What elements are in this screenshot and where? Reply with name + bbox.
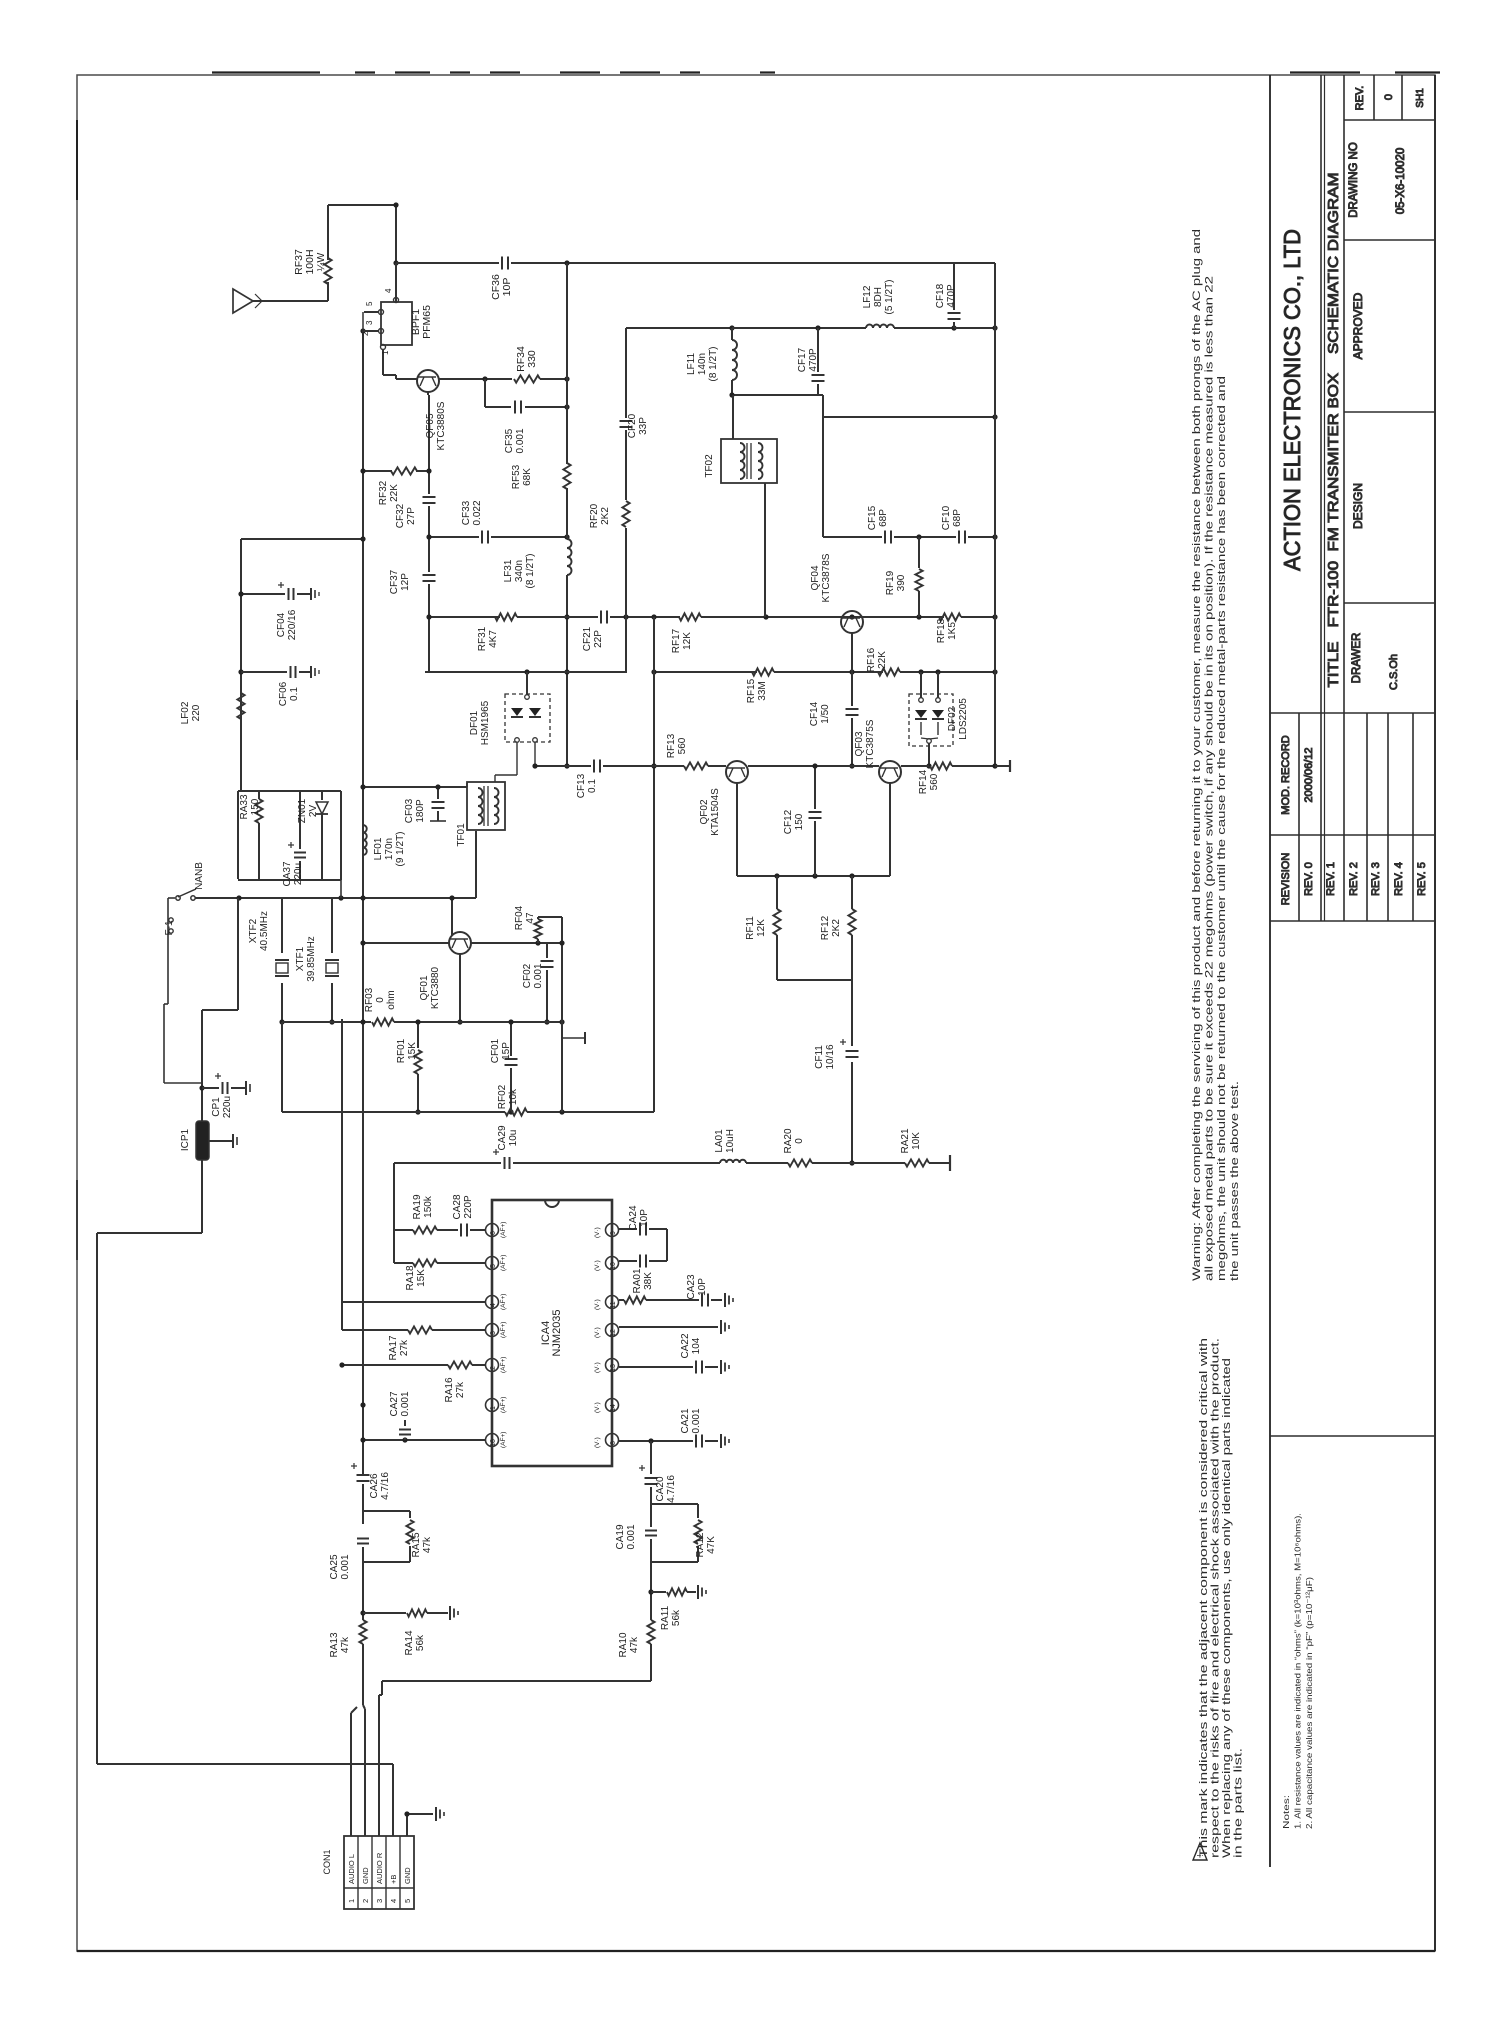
svg-text:CA26: CA26 [369,1473,380,1498]
junction [651,763,656,768]
wire [566,488,568,538]
wire [1269,75,1271,1867]
svg-text:all exposed metal parts to be: all exposed metal parts to be sure it ex… [1204,276,1216,1281]
junction [360,468,365,473]
resistor RA20 0 [788,1159,812,1166]
wire [394,1262,413,1264]
wire [327,282,329,301]
wire [439,378,512,380]
transformer TF01 [467,782,505,830]
wire [351,1707,357,1713]
junction [648,1438,653,1443]
svg-text:6: 6 [490,1231,497,1235]
junction [435,784,440,789]
wire [731,380,733,395]
wire [355,71,375,73]
resistor RA17 27k [408,1326,432,1333]
ground [721,1360,729,1374]
wire [168,930,169,932]
pin [394,298,399,303]
svg-text:CA21: CA21 [680,1408,691,1433]
junction [559,1019,564,1024]
capacitor CA24 10P [640,1223,646,1236]
capacitor CF10 68P [959,531,965,544]
svg-text:CA27: CA27 [389,1391,400,1416]
wire [851,980,853,1046]
svg-text:CF03: CF03 [404,798,415,823]
svg-text:CF04: CF04 [276,612,287,637]
junction [651,669,656,674]
svg-text:LDS2205: LDS2205 [958,698,969,740]
junction [532,763,537,768]
svg-text:560: 560 [677,737,688,754]
svg-text:QF05: QF05 [425,413,436,438]
ground [450,1606,458,1620]
svg-text:(V·): (V·) [594,1227,601,1238]
svg-text:8DH: 8DH [873,287,884,307]
wire [262,300,328,302]
svg-text:CF11: CF11 [814,1045,825,1069]
svg-text:5: 5 [403,1899,412,1903]
svg-text:ICP1: ICP1 [180,1128,191,1151]
label QF02 [699,788,721,836]
pin 8 [606,1434,619,1447]
wire [428,506,430,572]
wire [953,263,955,310]
junction [774,873,779,878]
svg-text:CF14: CF14 [809,701,820,726]
filter BPF1 PFM65 [381,302,412,345]
wire [328,204,396,206]
wire [395,71,430,73]
svg-text:REV. 1: REV. 1 [1325,862,1337,896]
junction [918,669,923,674]
svg-text:NJM2035: NJM2035 [551,1309,563,1356]
wire [921,738,929,739]
wire [817,328,819,372]
svg-text:respect to the risks of fire a: respect to the risks of fire and electri… [1210,1338,1222,1858]
svg-text:12K: 12K [682,632,693,650]
wire [511,262,995,264]
svg-text:(AF+): (AF+) [500,1294,507,1310]
label CF02 [522,963,544,988]
junction [564,669,569,674]
wire [680,71,700,73]
IC notch [545,1200,559,1207]
svg-text:CF20: CF20 [627,413,638,438]
svg-text:This mark indicates that the a: This mark indicates that the adjacent co… [1198,1338,1210,1858]
wire [484,379,486,407]
wire [620,71,660,73]
diode pair DF01 HSM1965 outline [505,694,550,742]
wire [164,1082,202,1084]
wire [281,1022,283,1112]
svg-text:2K2: 2K2 [831,919,842,937]
junction [524,669,529,674]
resistor RF37 100H [324,258,331,284]
svg-text:CA19: CA19 [615,1524,626,1549]
label RF16 [866,647,888,672]
resistor RF16 22K [878,668,900,675]
svg-text:150: 150 [250,798,261,815]
ground [721,1320,729,1334]
label QF04 [810,553,832,602]
svg-text:KTC3880S: KTC3880S [436,401,447,450]
resistor RA18 15K [413,1259,437,1266]
wire [937,722,939,735]
junction [508,1109,513,1114]
label CA37 [282,861,304,886]
label RA19 [412,1194,434,1219]
capacitor CA23 10P [702,1294,708,1307]
pin 9 [606,1224,619,1237]
wire [245,1081,247,1095]
svg-text:2K2: 2K2 [600,507,611,525]
svg-text:CF17: CF17 [797,347,808,372]
label NANB [194,862,205,890]
wire [395,205,397,263]
svg-text:KTC3880: KTC3880 [430,966,441,1009]
wire [705,1366,718,1368]
wire [732,394,823,396]
pin [176,896,180,900]
label CF11 [814,1044,836,1069]
capacitor CF01 15P [505,1059,518,1065]
wire [487,786,489,826]
label RA33 [239,794,261,819]
wire [314,668,316,676]
wire [340,791,342,880]
junction [360,536,365,541]
capacitor CA25 0.001 [357,1539,369,1544]
wire [894,327,954,329]
svg-text:CF18: CF18 [935,283,946,308]
wire [495,774,517,776]
svg-text:(AF+): (AF+) [500,1397,507,1413]
wire [357,1836,359,1909]
wire [954,327,995,329]
svg-text:0.022: 0.022 [472,500,483,525]
resistor RF34 330 [514,375,540,382]
wire [255,301,262,308]
wire [258,791,260,799]
wire [362,1562,364,1620]
wire [901,765,929,767]
wire [281,898,283,953]
capacitor CF13 0.1 [594,760,600,773]
wire [619,1326,718,1328]
transistor QF03 KTC3875S [879,761,901,783]
svg-text:(V·): (V·) [594,1299,601,1310]
pin [936,698,941,703]
junction [564,404,569,409]
svg-text:(AF+): (AF+) [500,1222,507,1238]
resistor RF31 4K7 [495,613,517,620]
svg-text:LA01: LA01 [714,1129,725,1153]
svg-text:1: 1 [490,1406,497,1410]
wire [392,1764,394,1836]
svg-text:RA13: RA13 [329,1632,340,1657]
svg-text:(5 1/2T): (5 1/2T) [884,279,895,314]
label RA17 [388,1335,410,1360]
junction [360,1437,365,1442]
svg-text:(V·): (V·) [594,1327,601,1338]
capacitor CA19 0.001 [645,1531,657,1536]
svg-text:XTF1: XTF1 [295,946,306,971]
label CF01 [490,1038,512,1063]
capacitor CF06 0.1 [291,666,296,678]
resistor RA16 27k [448,1361,472,1368]
wire [697,1504,699,1518]
label RF13 [666,733,688,758]
label RF14 [918,769,940,794]
wire [466,783,468,787]
wire [961,616,995,618]
svg-text:RA21: RA21 [900,1128,911,1153]
svg-text:GND: GND [403,1867,412,1884]
wire [812,1162,905,1164]
label CF36 [490,274,513,300]
junction [236,895,241,900]
capacitor CF14 1/50 [846,709,859,715]
junction [815,325,820,330]
label CA24 [628,1205,650,1230]
svg-text:CA24: CA24 [628,1205,639,1230]
label XTF2 [248,911,270,951]
svg-text:RA11: RA11 [660,1605,671,1630]
junction [415,1109,420,1114]
svg-text:4: 4 [389,1899,398,1903]
wire [395,263,397,302]
wire [1401,75,1403,120]
capacitor CF03 180P [432,802,445,808]
transformer TF02 winding [740,443,745,479]
svg-text:ohm: ohm [386,990,397,1009]
svg-text:LF31: LF31 [503,559,514,582]
wire [407,1813,433,1815]
svg-text:REV. 2: REV. 2 [1348,862,1360,896]
svg-text:2: 2 [361,331,370,336]
svg-text:RF16: RF16 [866,647,877,672]
junction [992,325,997,330]
svg-text:SH1: SH1 [1415,88,1426,108]
wire [393,1163,395,1230]
capacitor CA26 4.7/16 [357,1475,370,1481]
wire [178,889,196,897]
wire [814,766,816,809]
wire [430,820,446,822]
junction [648,1589,653,1594]
svg-text:RA01: RA01 [632,1268,643,1293]
junction [935,669,940,674]
svg-text:REVISION: REVISION [1280,853,1292,906]
svg-text:140n: 140n [697,353,708,375]
svg-text:220P: 220P [463,1195,474,1219]
polarity mark + [639,1465,645,1471]
wire [363,786,467,788]
junction [360,895,365,900]
wire [920,672,922,698]
svg-text:0: 0 [794,1138,805,1144]
junction [564,534,569,539]
junction [238,669,243,674]
wire [513,1162,720,1164]
svg-text:47: 47 [525,912,536,924]
wire [994,263,996,766]
junction [849,873,854,878]
svg-text:0.001: 0.001 [340,1554,351,1579]
wire [383,374,396,376]
wire [77,1950,1435,1952]
label RF04 [514,905,536,930]
resistor RF18 1K5 [939,613,961,620]
svg-text:GND: GND [361,1867,370,1884]
wire [538,916,562,918]
wire [362,1547,364,1562]
wire [362,312,364,331]
resistor RF15 33M [752,668,774,675]
resistor RF03 0ohm [372,1018,394,1025]
junction [849,763,854,768]
wire [900,671,995,673]
label CF10 [941,505,963,530]
svg-text:15K: 15K [407,1042,418,1060]
wire [750,443,752,479]
junction [559,1109,564,1114]
capacitor [640,1255,646,1268]
label CON1 [322,1849,332,1874]
wire [314,590,316,598]
wire [851,633,853,672]
resistor RF04 47 [534,919,541,939]
svg-text:27k: 27k [399,1339,410,1356]
svg-text:CF12: CF12 [783,809,794,834]
junction [951,325,956,330]
polarity mark + [351,1463,357,1469]
wire [697,1546,699,1562]
svg-text:RF11: RF11 [745,916,756,940]
svg-text:560: 560 [929,773,940,790]
svg-text:RA18: RA18 [405,1265,416,1290]
pin [379,310,384,315]
junction [360,784,365,789]
label LF02 [180,701,202,724]
svg-text:10P: 10P [501,278,513,297]
inductor LF12 8DH [866,325,894,329]
wire [350,1713,352,1836]
pin [919,698,924,703]
wire [822,395,824,417]
svg-text:CA22: CA22 [680,1333,691,1358]
label ICA4 [540,1309,563,1356]
transformer TF01 winding [494,788,499,824]
junction [279,1019,284,1024]
wire [736,783,738,876]
wire [363,942,449,944]
svg-text:340n: 340n [514,560,525,582]
svg-text:2: 2 [490,1366,497,1370]
wire [649,1260,667,1262]
polarity mark + [288,842,294,848]
svg-text:40.5MHz: 40.5MHz [259,911,270,951]
transformer TF01 winding [478,788,483,824]
wire [540,378,567,380]
junction [992,414,997,419]
junction [338,895,343,900]
junction [329,1019,334,1024]
svg-text:PFM65: PFM65 [421,305,433,339]
wire [237,898,239,1010]
wire [929,738,938,739]
label RF20 [589,503,611,528]
capacitor CF15 68P [885,531,891,544]
svg-text:RF17: RF17 [671,628,682,653]
junction [812,873,817,878]
wire [470,1229,485,1231]
svg-text:8: 8 [610,1441,617,1445]
junction [426,534,431,539]
svg-text:0.001: 0.001 [400,1391,411,1416]
junction [415,1019,420,1024]
label RF34 [515,346,538,372]
wire [491,536,567,538]
protector ICP1 [196,1121,209,1160]
pin [191,896,195,900]
label RF37 [293,249,327,275]
svg-text:KTA1504S: KTA1504S [710,788,721,836]
svg-text:CA20: CA20 [655,1476,666,1501]
wire [318,592,320,596]
junction [508,1019,513,1024]
ground [698,1585,706,1599]
svg-text:CF10: CF10 [941,505,952,530]
wire [732,327,866,329]
svg-text:QF01: QF01 [419,975,430,1000]
wire [516,743,518,775]
resistor RA13 47k [359,1620,366,1644]
wire [241,538,363,540]
svg-text:0: 0 [1383,94,1395,100]
svg-text:27P: 27P [406,507,417,525]
wire [393,1230,395,1263]
junction [559,940,564,945]
svg-text:CA25: CA25 [329,1554,340,1579]
label CA20 [655,1475,677,1503]
svg-text:CA23: CA23 [686,1274,697,1299]
wire [342,1364,448,1366]
wire [732,395,734,439]
wire [344,1887,414,1889]
junction [849,669,854,674]
label RA18 [405,1265,427,1290]
wire [381,1681,383,1695]
wire [918,591,920,617]
wire [364,311,379,313]
junction [623,614,628,619]
label RF18 [936,618,958,643]
capacitor CA29 10u [505,1157,510,1169]
wire [534,743,536,766]
junction [812,763,817,768]
label F-1 [164,920,175,935]
junction [360,1610,365,1615]
wire [238,790,341,792]
wire [610,616,680,618]
wire [459,954,461,1022]
junction [564,376,569,381]
svg-text:RF02: RF02 [497,1084,508,1109]
label RA21 [900,1128,922,1153]
